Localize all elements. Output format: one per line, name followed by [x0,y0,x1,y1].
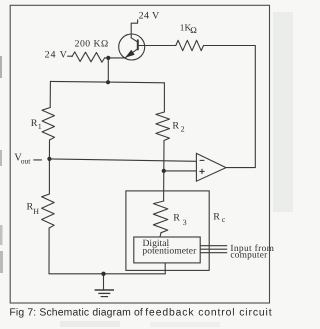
svg-text:24 V: 24 V [139,10,160,21]
svg-text:200 KΩ: 200 KΩ [75,38,109,49]
resistor 1KΩ [176,40,204,50]
wire plus input tap [164,170,197,172]
svg-text:Fig 7: Schematic diagram of: Fig 7: Schematic diagram of [9,308,143,319]
ground bars [95,290,114,297]
wire R2 bottom to R3 top [163,141,165,202]
svg-text:c: c [222,215,226,224]
wire bottom ground rail [49,273,165,275]
figure frame [10,5,269,303]
emitter arrowhead [125,50,135,58]
wire down to R1 [49,81,51,107]
svg-text:24 V: 24 V [45,50,68,61]
svg-text:R: R [173,212,180,223]
resistor R1 [42,108,54,141]
svg-text:R: R [213,212,220,223]
resistor R3 [153,201,167,233]
transistor base bar [137,40,139,49]
junction plus-input dot [162,169,166,173]
wire 24V left lead [68,55,72,57]
wire top rail R1 to R2 [50,81,164,82]
wire base lead to 1K [138,45,176,47]
box digital potentiometer [134,237,200,263]
junction node B dot [106,80,110,84]
wire 200K to emitter node [105,57,126,59]
resistor RH [42,194,55,228]
junction node A dot [106,56,110,60]
svg-text:R: R [172,121,179,132]
box Rc outer [126,191,209,271]
svg-text:1: 1 [38,122,42,131]
collector diagonal [131,38,138,42]
wire 1K to right rail down to op-amp output [204,46,256,168]
wire RH down to bottom rail [48,228,50,274]
svg-text:computer: computer [230,251,268,261]
svg-text:out: out [21,156,32,165]
emitter diagonal [125,49,138,58]
resistor 200KΩ [72,52,105,62]
wire R3 to digital pot box [160,233,161,237]
wire R2 top [163,83,165,112]
ground stem [103,274,105,290]
junction ground dot [101,272,105,276]
wire Vout dash [34,159,42,161]
wire Vout to op-amp inverting input [49,159,196,161]
transistor Q1 [119,34,145,60]
wire digital pot bottom to ground rail [164,263,166,274]
resistor R2 [156,112,170,141]
op-amp U1 [196,153,226,181]
wire Vout node to RH [48,159,50,194]
svg-text:R: R [31,118,38,129]
wire R1 to Vout node [48,140,50,159]
svg-text:potentiometer: potentiometer [142,245,197,256]
svg-text:feedback control circuit: feedback control circuit [145,308,271,319]
wire 24V top to transistor collector [131,20,137,38]
svg-text:3: 3 [183,218,187,227]
junction Vout dot [47,157,51,161]
svg-text:2: 2 [181,125,185,134]
svg-text:Ω: Ω [190,25,197,35]
bus lines input-from-computer [200,246,227,253]
wire node A down to node B [107,58,109,82]
svg-text:H: H [33,207,39,216]
